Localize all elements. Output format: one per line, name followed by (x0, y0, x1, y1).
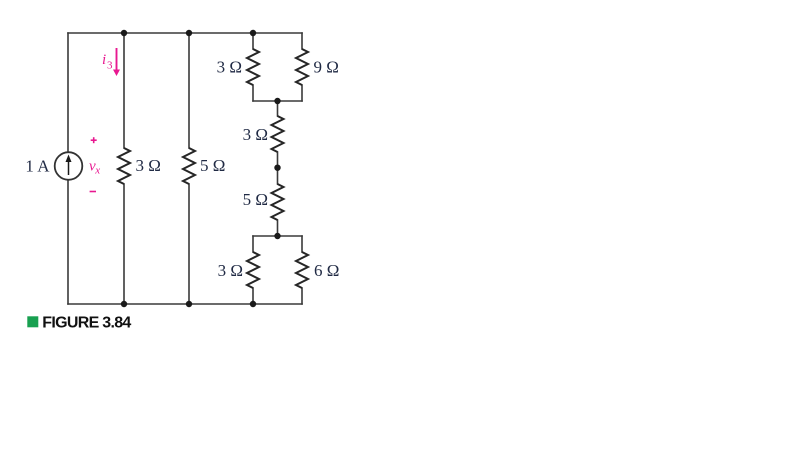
svg-text:3: 3 (107, 60, 113, 72)
svg-text:x: x (94, 165, 100, 177)
svg-text:3 Ω: 3 Ω (136, 156, 161, 175)
svg-text:5 Ω: 5 Ω (243, 190, 268, 209)
svg-text:i: i (102, 52, 106, 68)
svg-text:3 Ω: 3 Ω (243, 125, 268, 144)
svg-text:3 Ω: 3 Ω (217, 58, 242, 77)
svg-text:9 Ω: 9 Ω (314, 58, 339, 77)
svg-text:6 Ω: 6 Ω (314, 261, 339, 280)
svg-text:3 Ω: 3 Ω (218, 261, 243, 280)
svg-text:5 Ω: 5 Ω (200, 156, 225, 175)
svg-text:1 A: 1 A (25, 157, 50, 176)
svg-text:FIGURE 3.84: FIGURE 3.84 (42, 315, 131, 332)
